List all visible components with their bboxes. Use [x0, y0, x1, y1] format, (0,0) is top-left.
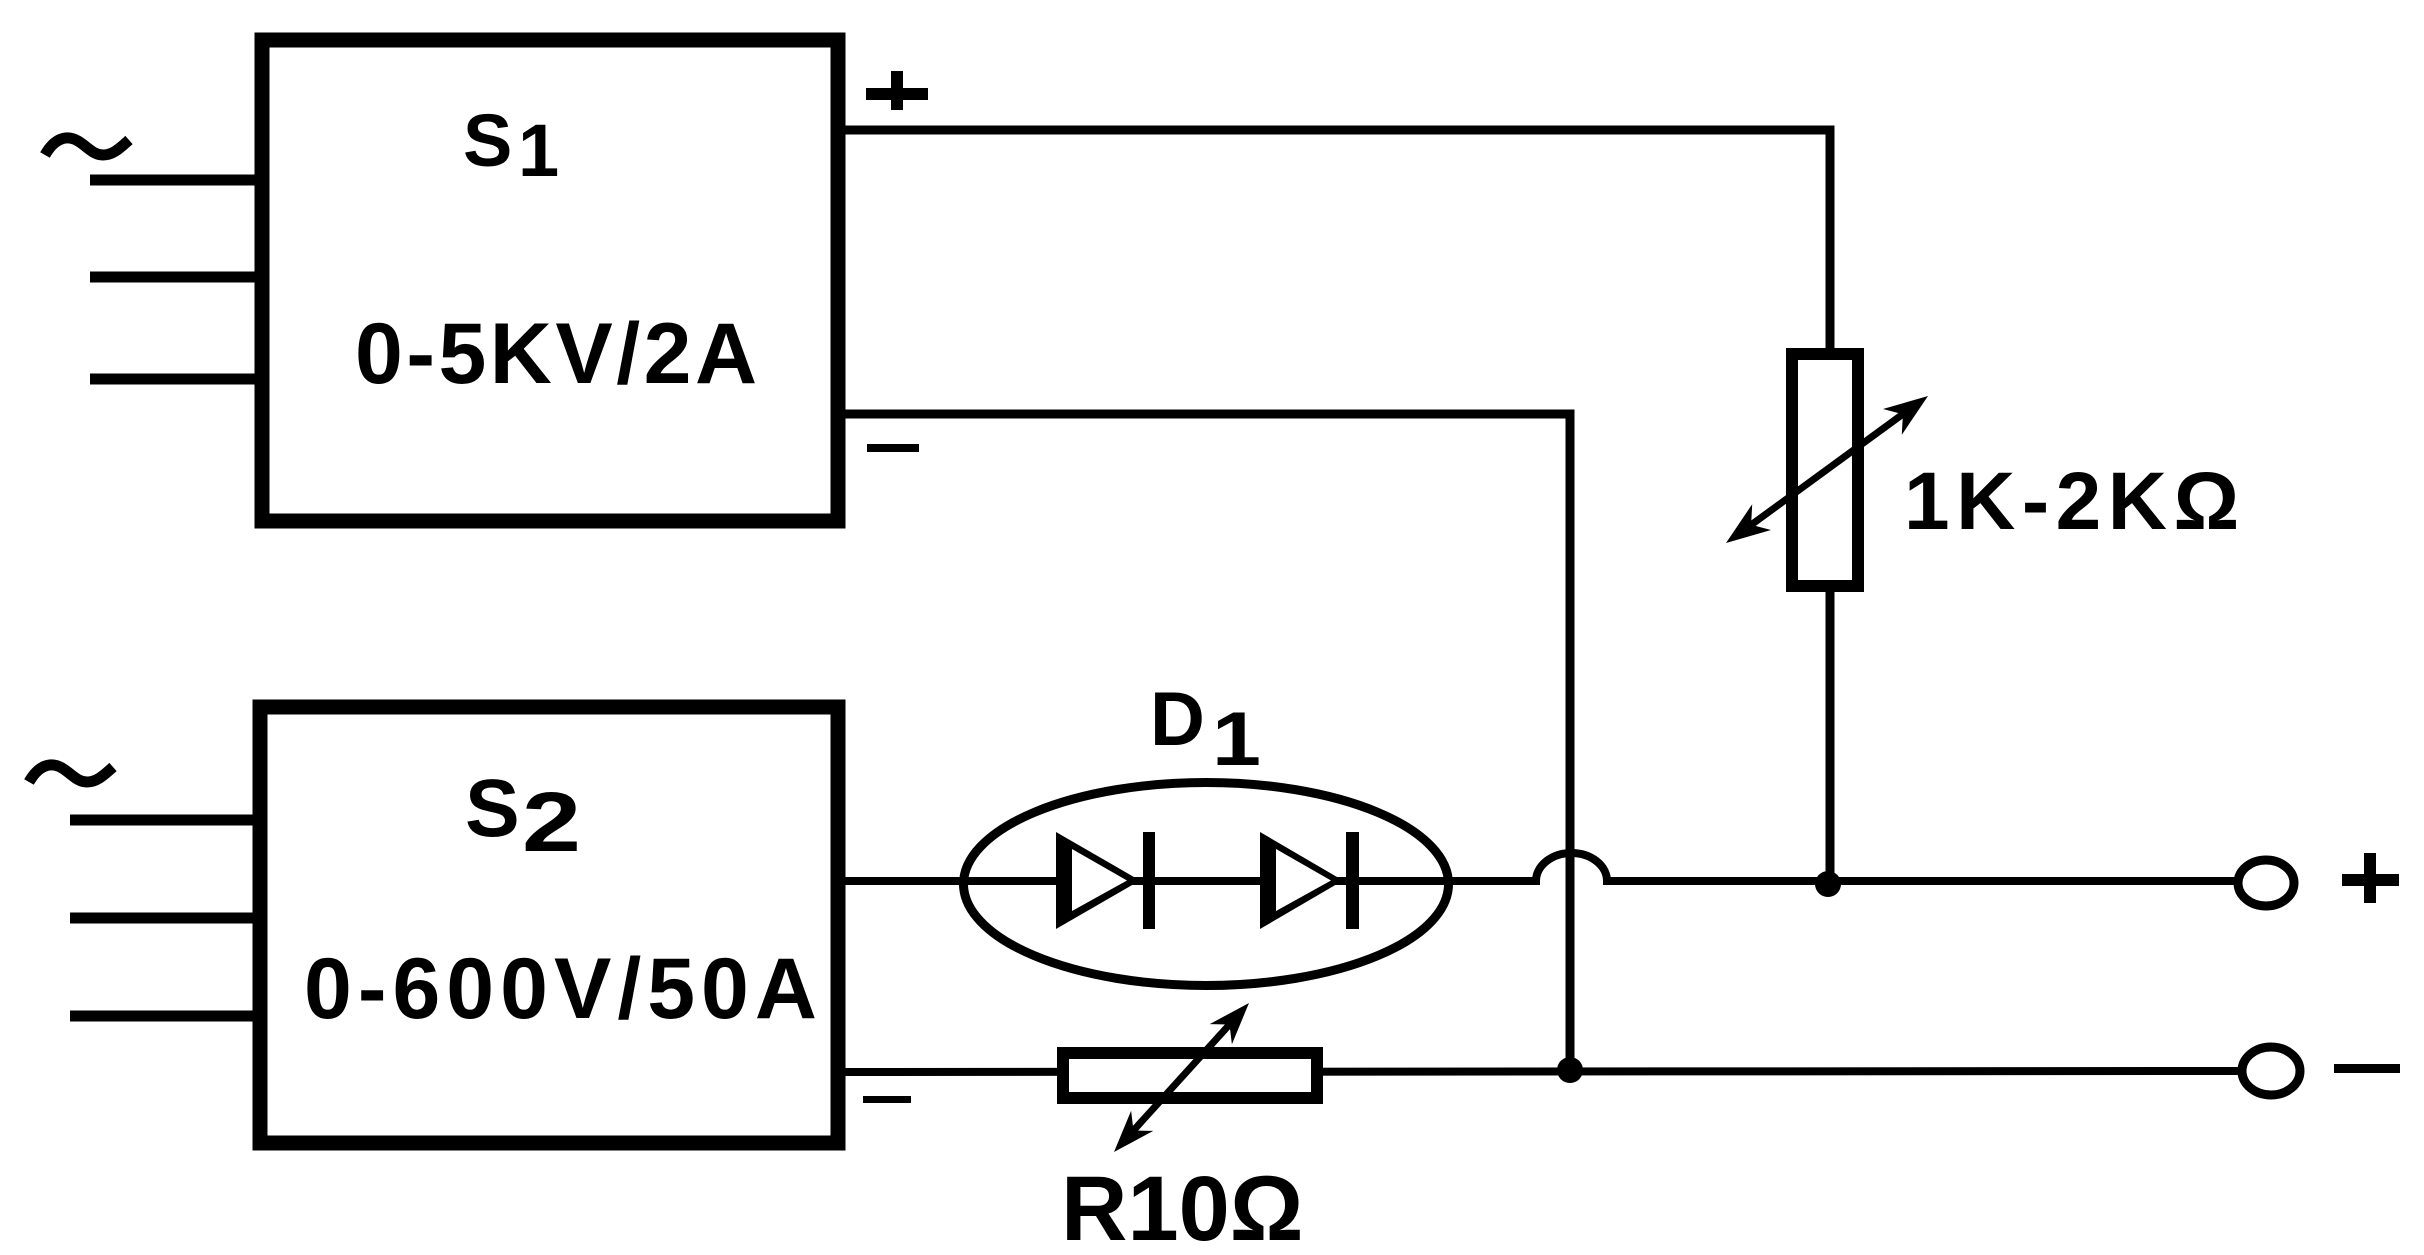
diode D1b: [1260, 832, 1359, 929]
output terminal minus: [2242, 1047, 2300, 1095]
diode D1a: [1056, 832, 1155, 929]
svg-text:1: 1: [1212, 697, 1261, 782]
minus terminal label S1: [867, 444, 919, 452]
wire S2 minus output rail: [842, 1071, 2240, 1072]
S1 input line 1: [90, 175, 262, 186]
power supply S2 box: [260, 707, 838, 1143]
output terminal plus: [2238, 860, 2294, 906]
svg-text:D: D: [1150, 677, 1205, 762]
wire S1 plus output: [842, 130, 1830, 360]
AC source tilde for S2: [29, 765, 113, 782]
rheostat R1 arrow: [1726, 396, 1928, 543]
svg-text:S: S: [463, 99, 512, 182]
power supply S1 box: [262, 40, 838, 521]
svg-text:0-600V/50A: 0-600V/50A: [304, 941, 823, 1037]
wire S2 plus output through D1 with hop: [842, 853, 2237, 881]
label minus output: [2334, 1064, 2400, 1073]
svg-text:1K-2KΩ: 1K-2KΩ: [1904, 456, 2246, 547]
label plus output: [2342, 853, 2399, 903]
junction dot node A: [1815, 871, 1841, 897]
svg-text:R10Ω: R10Ω: [1061, 1158, 1304, 1255]
svg-text:S: S: [465, 763, 520, 854]
wire rheostat bottom to plus rail: [1826, 580, 1835, 884]
S2 input line 1: [70, 815, 260, 826]
rheostat R1 1K-2KOhm body: [1792, 354, 1858, 586]
rheostat R2 10Ohm body: [1063, 1053, 1317, 1098]
S2 input line 2: [70, 913, 260, 924]
svg-text:1: 1: [518, 109, 559, 192]
AC source tilde for S1: [45, 138, 129, 155]
rheostat R2 arrow: [1114, 1003, 1249, 1152]
junction dot node B: [1557, 1057, 1583, 1083]
S2 input line 3: [70, 1011, 260, 1022]
S1 input line 3: [90, 374, 262, 385]
wire S1 minus output: [842, 414, 1570, 1070]
minus terminal label S2: [863, 1096, 911, 1103]
plus terminal label S1: [866, 71, 928, 110]
diode stack D1 ellipse: [964, 783, 1449, 986]
S1 input line 2: [90, 272, 262, 283]
svg-text:0-5KV/2A: 0-5KV/2A: [355, 306, 761, 402]
svg-text:2: 2: [522, 775, 581, 869]
